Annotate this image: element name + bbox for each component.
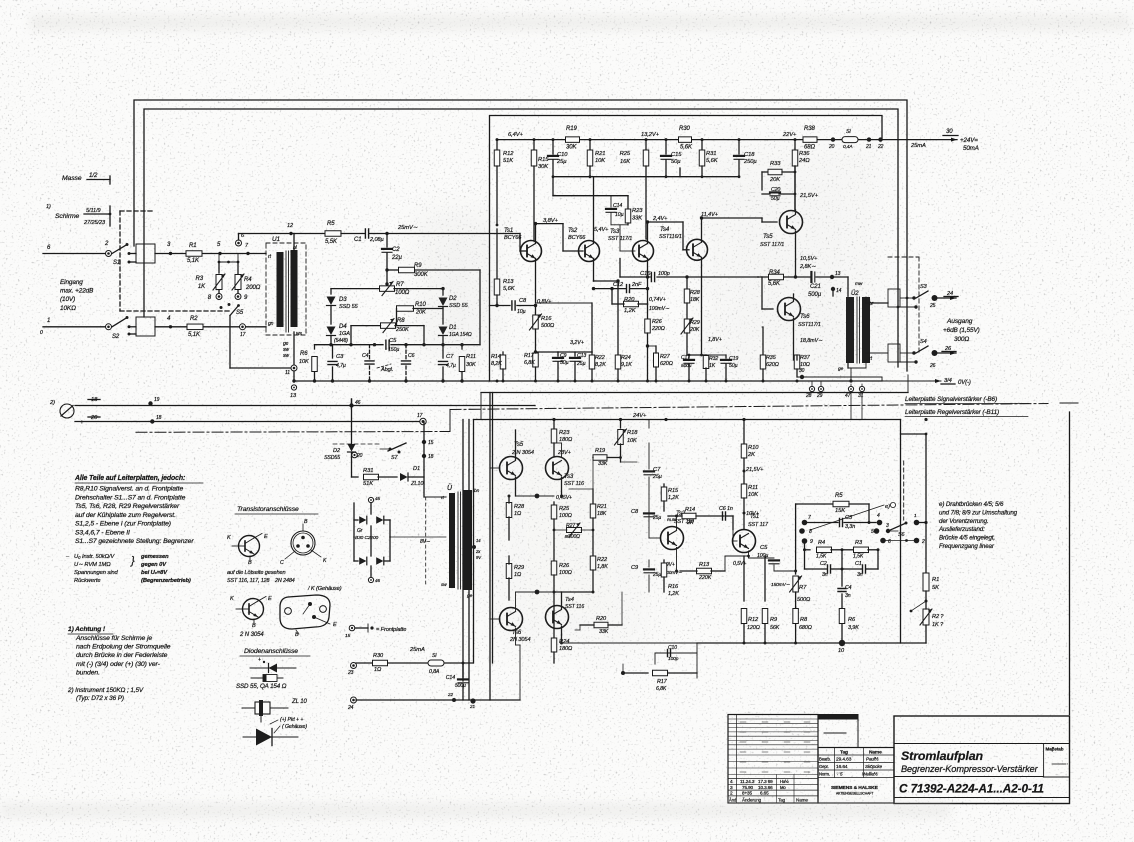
terminal 6 input bbox=[43, 253, 106, 255]
resistor R16 1,2K lower bbox=[663, 560, 665, 563]
potentiometer R29 20K bbox=[684, 319, 690, 333]
svg-text:Änd: Änd bbox=[729, 798, 737, 803]
svg-text:Drehschalter S1...S7 an d. Fro: Drehschalter S1...S7 an d. Frontplatte bbox=[75, 494, 186, 501]
svg-text:25µ: 25µ bbox=[652, 474, 662, 480]
capacitor C2 22µ bbox=[386, 234, 388, 248]
svg-text:C15: C15 bbox=[671, 152, 682, 158]
legend power diode symbol bbox=[243, 736, 298, 738]
wire up from node46 bbox=[351, 399, 353, 406]
svg-text:R2: R2 bbox=[190, 316, 198, 322]
resistor R25 16K bbox=[645, 138, 648, 141]
svg-text:Gepr.: Gepr. bbox=[819, 764, 829, 769]
terminal 4 switch bbox=[877, 520, 883, 526]
node 5 bbox=[218, 252, 221, 255]
resistor R13 220K lower bbox=[697, 568, 712, 574]
svg-text:Paul½: Paul½ bbox=[866, 756, 879, 762]
wire Ts1 emitter down bbox=[535, 259, 537, 304]
wire R18 bottom bbox=[619, 456, 622, 459]
node 13 label bbox=[291, 385, 296, 390]
svg-text:R12: R12 bbox=[503, 151, 514, 157]
svg-text:15: 15 bbox=[428, 440, 434, 446]
wire R15 to Ts1 collector node bbox=[534, 240, 536, 242]
wire bottom right corner bbox=[881, 377, 883, 381]
node 12 bbox=[289, 232, 292, 235]
resistor R32 1K bbox=[705, 354, 707, 356]
svg-text:25µ: 25µ bbox=[652, 515, 661, 521]
svg-text:680Ω: 680Ω bbox=[799, 625, 812, 631]
wire S4 out bbox=[937, 352, 956, 354]
svg-text:R19: R19 bbox=[566, 126, 577, 132]
svg-text:25mA: 25mA bbox=[910, 143, 926, 149]
wire R8 right col down bbox=[423, 326, 425, 345]
svg-text:auf der Kühlplatte zum Regelve: auf der Kühlplatte zum Regelverst. bbox=[75, 512, 176, 519]
svg-text:Transistoranschlüsse: Transistoranschlüsse bbox=[237, 506, 299, 513]
wire Ts3 collector bbox=[561, 443, 563, 457]
maszstab box bbox=[1043, 744, 1045, 778]
wire terminal6a up to node 12 line bbox=[238, 234, 240, 241]
svg-text:23: 23 bbox=[347, 670, 354, 676]
svg-text:29.4.63: 29.4.63 bbox=[836, 757, 852, 763]
svg-text:R38: R38 bbox=[804, 126, 815, 132]
svg-text:19: 19 bbox=[154, 397, 160, 403]
nodes 47 31 bbox=[848, 386, 853, 391]
svg-text:BCY66: BCY66 bbox=[568, 235, 586, 241]
svg-text:R24: R24 bbox=[621, 355, 631, 361]
capacitor C16 100p bbox=[651, 273, 654, 282]
resistor R2 5,1K bbox=[171, 326, 221, 328]
svg-text:51K: 51K bbox=[363, 481, 374, 487]
terminal 17 lower bbox=[420, 418, 426, 424]
terminal 4b bbox=[914, 520, 920, 526]
resistor R15 1,2K lower bbox=[663, 484, 665, 487]
resistor R24 180Ω lower bbox=[553, 592, 555, 638]
wire R35 top bbox=[762, 326, 763, 328]
wire Ts3 emitter col bbox=[647, 277, 649, 304]
supply rail 24V lower bbox=[474, 419, 901, 421]
svg-text:250K: 250K bbox=[395, 327, 409, 333]
resistor R10 20K bbox=[397, 306, 414, 312]
svg-text:Begrenzer-Kompressor-Verstärke: Begrenzer-Kompressor-Verstärker bbox=[901, 764, 1039, 774]
svg-text:AKTIENGESELLSCHAFT: AKTIENGESELLSCHAFT bbox=[836, 792, 873, 796]
wire Ts4 emitter to bottom bbox=[561, 635, 563, 643]
rectifier bridge diodes Gr B30 C2200 bbox=[368, 497, 373, 502]
bottom rail lower board bbox=[697, 642, 926, 644]
wire Ts3 emitter down bbox=[647, 259, 649, 278]
svg-text:6: 6 bbox=[888, 539, 891, 545]
svg-text:S5: S5 bbox=[236, 310, 244, 316]
svg-text:25µ: 25µ bbox=[556, 159, 567, 165]
svg-text:5,5K: 5,5K bbox=[325, 239, 338, 245]
svg-text:Ts5, Ts6, R28, R29 Regelverstä: Ts5, Ts6, R28, R29 Regelverstärker bbox=[75, 503, 180, 510]
svg-text:Name: Name bbox=[869, 750, 882, 756]
bridge diode 1 bbox=[359, 516, 366, 524]
svg-text:0,8V+: 0,8V+ bbox=[537, 299, 552, 305]
wire R29 C17 R32 join bbox=[687, 354, 706, 356]
resistor R14 2K lower bbox=[682, 513, 696, 519]
scan tonal wash regions bbox=[415, 210, 500, 360]
capacitor C10 25µ bbox=[552, 138, 555, 141]
svg-text:13: 13 bbox=[290, 393, 297, 399]
svg-text:R23: R23 bbox=[632, 208, 643, 214]
svg-text:51K: 51K bbox=[503, 158, 514, 164]
svg-text:3,3n: 3,3n bbox=[845, 524, 855, 530]
wire R9 right down bbox=[479, 270, 481, 345]
scan edge shading bbox=[30, 15, 1130, 30]
svg-text:2nF: 2nF bbox=[631, 282, 642, 288]
transformer U1 dashed box bbox=[266, 243, 306, 335]
svg-text:6,4V+: 6,4V+ bbox=[508, 132, 524, 138]
wire R13 to Ts1 emitter col bbox=[724, 556, 726, 571]
legend ZL10 package bbox=[242, 707, 288, 709]
svg-text:5,6K: 5,6K bbox=[680, 145, 693, 151]
node 4 bbox=[169, 325, 172, 328]
svg-text:S1...S7 gezeichnete Stellung:: S1...S7 gezeichnete Stellung: Begrenzer bbox=[75, 538, 194, 545]
svg-text:300Ω: 300Ω bbox=[954, 336, 969, 343]
wire node13 to trafo bbox=[832, 276, 848, 278]
svg-text:1K ?: 1K ? bbox=[932, 622, 944, 628]
svg-text:Norm.: Norm. bbox=[819, 772, 830, 777]
svg-text:1): 1) bbox=[46, 204, 51, 210]
wire Ts1 base bbox=[733, 540, 737, 542]
wire D4 down to rail bbox=[330, 336, 332, 345]
svg-text:SSD 55, QA 154 Ω: SSD 55, QA 154 Ω bbox=[236, 683, 287, 690]
transformer U1 core lines bbox=[285, 251, 287, 332]
long vertical v473 bbox=[473, 420, 475, 664]
wire bridge out bbox=[390, 536, 446, 538]
svg-text:3,9K: 3,9K bbox=[848, 625, 859, 631]
svg-text:150µ: 150µ bbox=[388, 347, 399, 353]
svg-text:Ausgang: Ausgang bbox=[946, 318, 973, 325]
wire Ts6 base bbox=[762, 308, 773, 310]
svg-text:100Ω: 100Ω bbox=[395, 290, 410, 296]
bridge diode 3 bbox=[359, 557, 366, 565]
diode D3 SSD55 bbox=[327, 297, 336, 306]
terminal 8 bbox=[218, 290, 220, 293]
node 21 bbox=[867, 137, 871, 141]
svg-text:R1: R1 bbox=[932, 577, 939, 583]
wire Ts5 base bbox=[490, 467, 500, 469]
svg-text:14: 14 bbox=[476, 538, 481, 543]
wire C3 to terminal 4 bbox=[869, 522, 876, 524]
svg-text:18: 18 bbox=[428, 454, 434, 460]
wire to trafo primary bbox=[423, 470, 425, 497]
svg-text:SSD55: SSD55 bbox=[324, 455, 340, 461]
resistor R11 30K bbox=[461, 345, 463, 349]
potentiometer R4 200Ω bbox=[235, 275, 241, 290]
upper board border bbox=[490, 116, 883, 382]
node c2 bbox=[535, 494, 540, 499]
resistor R26 220Ω bbox=[647, 304, 649, 318]
svg-text:2,4V+: 2,4V+ bbox=[652, 216, 668, 222]
svg-text:26: 26 bbox=[929, 363, 936, 369]
svg-text:10µ: 10µ bbox=[615, 212, 624, 218]
svg-text:50µ: 50µ bbox=[671, 159, 681, 165]
resistor R27 620Ω bbox=[654, 353, 659, 367]
svg-text:C1: C1 bbox=[855, 561, 862, 567]
node 7 bbox=[246, 252, 249, 255]
svg-text:C10: C10 bbox=[668, 645, 677, 651]
svg-text:R29: R29 bbox=[690, 320, 700, 326]
svg-text:auf die Lötseite gesehen: auf die Lötseite gesehen bbox=[227, 570, 286, 576]
svg-text:R6: R6 bbox=[848, 617, 856, 623]
svg-text:Tag: Tag bbox=[840, 750, 848, 756]
wire Ts4 emitter down bbox=[701, 258, 703, 278]
svg-text:R12: R12 bbox=[748, 617, 759, 623]
svg-text:1,2K: 1,2K bbox=[668, 591, 679, 597]
svg-text:= Frontplatte: = Frontplatte bbox=[376, 627, 406, 633]
svg-text:2,08µ: 2,08µ bbox=[369, 237, 384, 243]
svg-text:5,6K: 5,6K bbox=[503, 286, 516, 292]
svg-text:C2: C2 bbox=[392, 247, 400, 253]
dashed enclosure input switches bbox=[120, 210, 152, 212]
svg-text:R4: R4 bbox=[244, 277, 252, 283]
resistor R11 10K lower bbox=[743, 471, 745, 484]
node 30 bottom bbox=[800, 375, 804, 379]
svg-text:2: 2 bbox=[921, 539, 925, 545]
svg-text:500µ: 500µ bbox=[681, 363, 692, 369]
resistor R23 33K bbox=[625, 209, 631, 223]
fuse Si 0,8A bbox=[428, 660, 444, 666]
wire outer loop B bbox=[144, 109, 898, 367]
svg-text:1Ω: 1Ω bbox=[374, 667, 382, 673]
svg-text:9: 9 bbox=[810, 539, 813, 545]
capacitor C9 25µ lower bbox=[644, 568, 654, 570]
svg-text:2) Instrument 150KΩ ; 1,5V: 2) Instrument 150KΩ ; 1,5V bbox=[67, 687, 144, 694]
wire link from upper bottom bbox=[481, 392, 908, 394]
transistor Ts2 SST119 bbox=[661, 527, 684, 550]
svg-text:Wellia½: Wellia½ bbox=[862, 771, 878, 777]
transistor Ts3 SST116 lower bbox=[546, 457, 569, 480]
svg-text:R13: R13 bbox=[699, 562, 710, 568]
svg-text:1,5K: 1,5K bbox=[816, 554, 827, 560]
wire U2 bottom leads bbox=[847, 363, 849, 368]
wire C1 to box bbox=[369, 233, 490, 235]
wire Ts1 collector bbox=[535, 224, 537, 244]
svg-text:R17: R17 bbox=[524, 353, 535, 359]
wire loop A vert end bbox=[906, 297, 909, 300]
svg-text:1K: 1K bbox=[198, 284, 206, 290]
capacitor C18 250µ bbox=[738, 138, 741, 141]
svg-text:1) Achtung !: 1) Achtung ! bbox=[68, 626, 106, 633]
svg-text:R15: R15 bbox=[668, 488, 679, 494]
svg-text:e) Drahtbrücken 4/5; 5/6: e) Drahtbrücken 4/5; 5/6 bbox=[939, 501, 1004, 508]
svg-text:C: C bbox=[280, 560, 284, 566]
svg-text:D4: D4 bbox=[339, 324, 347, 330]
title block revision table bbox=[728, 715, 818, 804]
svg-text:Ts3: Ts3 bbox=[610, 229, 620, 235]
svg-text:E: E bbox=[268, 596, 272, 602]
wire R36 col to Ts5 bbox=[794, 166, 796, 211]
svg-text:4: 4 bbox=[730, 779, 733, 785]
svg-text:16K: 16K bbox=[620, 159, 631, 165]
svg-text:46: 46 bbox=[375, 578, 380, 583]
potentiometer R16 500Ω bbox=[535, 306, 537, 316]
long vertical v469 bbox=[468, 420, 470, 701]
svg-text:Diodenanschlüsse: Diodenanschlüsse bbox=[244, 648, 298, 655]
node 10 bbox=[839, 640, 845, 646]
wire Ts4 coll to Ts5 base bbox=[702, 217, 763, 219]
svg-text:D3: D3 bbox=[339, 297, 347, 303]
svg-text:Frequenzgang linear: Frequenzgang linear bbox=[939, 543, 995, 550]
svg-text:B: B bbox=[248, 560, 252, 566]
transistor Ts6 2N3054 lower bbox=[500, 608, 523, 631]
svg-text:bn: bn bbox=[474, 488, 480, 494]
fuse Si 0,4A bbox=[842, 137, 858, 143]
svg-text:2: 2 bbox=[730, 791, 733, 797]
resistor R30 1Ω lower bbox=[373, 660, 388, 666]
wire R26 R27 join bbox=[648, 345, 657, 347]
potentiometer R27 300Ω lower bbox=[567, 528, 582, 533]
capacitor C10 100p lower bbox=[655, 652, 697, 654]
wire Ts2 collector up bbox=[593, 177, 595, 244]
svg-text:10K: 10K bbox=[595, 158, 606, 164]
transformer U1 left winding bbox=[277, 252, 284, 327]
svg-text:4,7µ: 4,7µ bbox=[446, 363, 456, 369]
capacitor C17 500µ bbox=[688, 355, 690, 358]
wire trafo top right to node 12 bbox=[293, 234, 295, 251]
svg-text:R6: R6 bbox=[300, 351, 308, 357]
wire bottom to Ts6 bbox=[519, 645, 521, 700]
wire U2 sec top to S3 bbox=[866, 302, 888, 304]
svg-text:25: 25 bbox=[929, 303, 936, 309]
resistor R19 33K lower bbox=[593, 455, 607, 461]
svg-text:9,1K: 9,1K bbox=[621, 362, 632, 368]
svg-text:10K: 10K bbox=[748, 492, 759, 498]
terminal 8 bbox=[799, 528, 805, 534]
wire border to R1 column bbox=[901, 433, 927, 435]
svg-text:R26: R26 bbox=[652, 319, 662, 325]
svg-text:100p: 100p bbox=[668, 656, 679, 662]
svg-text:Leiterplatte Regelverstärker: Leiterplatte Regelverstärker (-B11) bbox=[905, 409, 999, 416]
svg-text:K: K bbox=[230, 596, 234, 602]
resistor R31 5,6K bbox=[701, 138, 704, 141]
svg-text:R13: R13 bbox=[503, 279, 514, 285]
svg-text:U1: U1 bbox=[272, 236, 281, 243]
node 15 lower bbox=[422, 440, 426, 444]
switch S7 bbox=[389, 448, 392, 451]
transformer UE right winding bbox=[463, 490, 472, 590]
svg-text:R2 ?: R2 ? bbox=[932, 614, 944, 620]
resistor R30 5,6K series bbox=[679, 137, 692, 143]
terminal 7 bbox=[802, 520, 808, 526]
wire node14 link bbox=[832, 289, 834, 296]
svg-text:R22: R22 bbox=[595, 355, 605, 361]
svg-text:46: 46 bbox=[355, 400, 361, 406]
svg-text:3n: 3n bbox=[845, 593, 851, 599]
svg-text:5: 5 bbox=[871, 529, 874, 535]
svg-text:120Ω: 120Ω bbox=[747, 625, 760, 631]
wire C16 left bbox=[620, 276, 650, 278]
svg-text:22µ: 22µ bbox=[391, 255, 402, 261]
svg-text:C2: C2 bbox=[820, 561, 827, 567]
wire stubs below 47 31 bbox=[850, 384, 852, 420]
svg-text:30: 30 bbox=[946, 129, 953, 135]
wire U2 primary top bbox=[847, 296, 849, 297]
capacitor C12 2nF bbox=[627, 285, 630, 293]
svg-text:SST116/1: SST116/1 bbox=[659, 234, 682, 240]
svg-text:Tag: Tag bbox=[778, 798, 786, 803]
wire Ts5 emitter to C21 bbox=[796, 276, 811, 278]
wire Ts6 collector bbox=[793, 294, 795, 301]
svg-text:Rückwerte: Rückwerte bbox=[74, 578, 101, 584]
svg-text:C 71392-A224-A1...A2-0-11: C 71392-A224-A1...A2-0-11 bbox=[899, 782, 1044, 796]
svg-text:13,2V+: 13,2V+ bbox=[641, 132, 660, 138]
svg-text:0: 0 bbox=[40, 330, 43, 336]
capacitor C4 3n lower bbox=[841, 550, 843, 586]
capacitor C2 3n lower bbox=[828, 565, 831, 573]
svg-text:15K: 15K bbox=[835, 508, 846, 514]
wire outer loop A bbox=[134, 100, 907, 371]
svg-text:8,2K: 8,2K bbox=[595, 362, 606, 368]
svg-text:SST 116, 117, 128: SST 116, 117, 128 bbox=[227, 578, 270, 584]
svg-text:R7: R7 bbox=[396, 282, 404, 288]
switch S5 bbox=[220, 306, 223, 309]
svg-text:Änderung: Änderung bbox=[742, 797, 762, 803]
wire Ts6 base collector emitter bbox=[490, 618, 500, 620]
resistor R21 10K bbox=[589, 138, 592, 141]
resistor R26 100Ω lower bbox=[553, 530, 555, 560]
svg-text:2): 2) bbox=[49, 400, 55, 406]
svg-text:∵ 5: ∵ 5 bbox=[836, 772, 843, 777]
svg-text:R30: R30 bbox=[679, 126, 690, 132]
resistor R28 18K bbox=[686, 277, 688, 289]
title block right box bbox=[894, 716, 1070, 804]
wire Ts2 emitter bbox=[676, 548, 678, 572]
svg-text:R15: R15 bbox=[538, 157, 549, 163]
capacitor C5 100µ lower bbox=[748, 556, 750, 558]
terminal 6a above bbox=[236, 240, 242, 246]
svg-text:+24V=: +24V= bbox=[960, 137, 978, 144]
svg-text:R8: R8 bbox=[800, 617, 808, 623]
wire R16 C9 join bbox=[536, 351, 559, 353]
potentiometer R7 100Ω bbox=[380, 288, 387, 290]
long vertical v463 bbox=[462, 420, 464, 682]
svg-text:bunden.: bunden. bbox=[76, 669, 100, 676]
svg-text:2K: 2K bbox=[686, 520, 694, 526]
wire Ts2 emitter down bbox=[593, 259, 595, 282]
svg-text:4,7µ: 4,7µ bbox=[336, 363, 346, 369]
capacitor C8 10µ bbox=[490, 305, 511, 307]
svg-text:8,2K: 8,2K bbox=[491, 361, 502, 367]
legend TO3 case bbox=[280, 595, 330, 629]
svg-text:SIEMENS & HALSKE: SIEMENS & HALSKE bbox=[831, 785, 879, 791]
legend diode arrow symbol bbox=[250, 667, 296, 669]
svg-text:620Ω: 620Ω bbox=[660, 361, 673, 367]
wire node5 to trafo bbox=[220, 253, 266, 255]
capacitor C6 1n lower bbox=[723, 512, 726, 520]
svg-text:50mA: 50mA bbox=[963, 145, 979, 152]
diode D4 1GA (5448) bbox=[327, 327, 336, 336]
svg-text:1GA: 1GA bbox=[339, 331, 350, 337]
terminal 15 frontplatte bbox=[349, 625, 355, 631]
switch S3 contacts bbox=[912, 296, 915, 299]
wire Ts2 base bbox=[649, 537, 660, 539]
legend diode body symbol bbox=[251, 677, 283, 679]
right border vertical bbox=[1069, 412, 1071, 715]
wire R3R4 row bbox=[219, 261, 238, 263]
svg-text:R25: R25 bbox=[620, 151, 631, 157]
wire R7 top to R5 bracket bbox=[796, 503, 833, 505]
svg-text:C7: C7 bbox=[653, 467, 661, 473]
terminal 9 bbox=[237, 290, 239, 293]
wire loop B vert end bbox=[897, 306, 900, 309]
svg-text:C6: C6 bbox=[408, 353, 415, 359]
svg-text:R28: R28 bbox=[690, 290, 700, 296]
wire S5 down to terminal 11 bbox=[229, 316, 231, 369]
wire C8 junction bbox=[496, 303, 498, 306]
resistor R10 2K lower bbox=[743, 418, 746, 421]
wire Ts5 emitter down to R34 node bbox=[795, 231, 797, 277]
